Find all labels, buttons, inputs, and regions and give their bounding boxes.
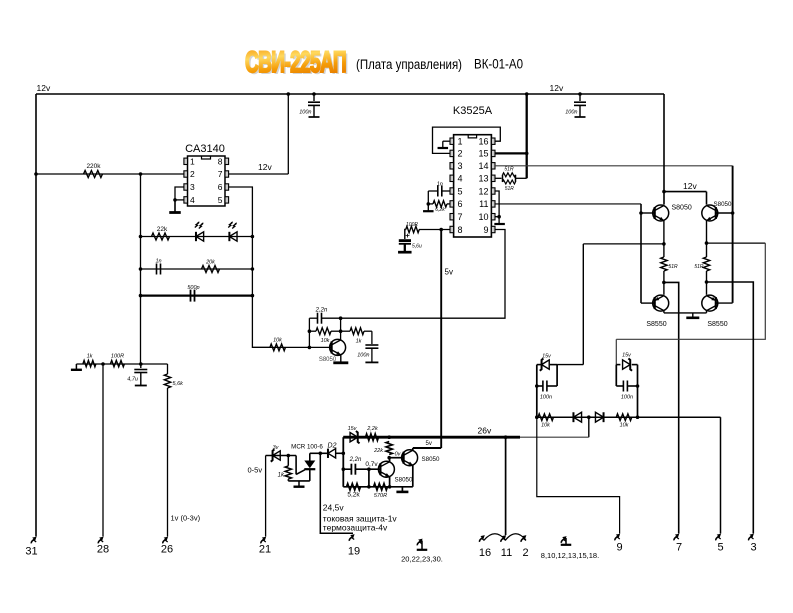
svg-text:+: + <box>405 231 410 240</box>
junction row B left <box>139 267 143 271</box>
junction collector node top <box>339 316 343 320</box>
wire MCR gate branch <box>295 456 297 475</box>
ground at Q1 emitter <box>340 355 342 362</box>
wire Q3 emitter down <box>706 221 708 258</box>
wire 12v to driver collectors <box>664 191 707 193</box>
junction 12v rail / 100n cap <box>312 92 316 96</box>
wire 0-5v zener row <box>266 455 297 457</box>
junction 22k top <box>387 435 391 439</box>
resistor 10k left snubber <box>538 414 554 421</box>
transistor Q4 S8550 left <box>653 295 669 311</box>
svg-text:14: 14 <box>478 161 488 171</box>
svg-text:0v: 0v <box>395 452 402 458</box>
capacitor 1n at pin5 <box>442 190 450 192</box>
junction left snubber bottom <box>535 415 539 419</box>
terminal 21 <box>261 539 264 543</box>
terminal 28 <box>98 539 101 543</box>
svg-text:26: 26 <box>161 544 173 556</box>
junction 5,2k / 570R <box>367 485 371 489</box>
ground at K3525A pin1 <box>438 147 449 149</box>
svg-text:8,10,12,13,15,18.: 8,10,12,13,15,18. <box>541 551 599 560</box>
svg-text:31: 31 <box>25 546 37 558</box>
wire 12v rail right drop <box>663 94 665 205</box>
svg-text:28: 28 <box>97 544 109 556</box>
svg-text:0,7v: 0,7v <box>365 461 378 468</box>
junction collector node mid <box>339 329 343 333</box>
wire feedback row A <box>141 236 253 238</box>
capacitor 4,7u to ground <box>140 364 142 368</box>
capacitor 5,6u electrolytic <box>405 230 406 240</box>
junction Q6 emitter row <box>388 485 392 489</box>
op-amp U1 CA3140 body <box>188 156 226 206</box>
junction pin8 / 5v column <box>439 228 443 232</box>
svg-text:570R: 570R <box>374 493 387 499</box>
svg-text:0-5v: 0-5v <box>248 466 263 475</box>
IC U2 K3525A body <box>454 135 492 237</box>
diode D2 <box>320 452 327 454</box>
junction 22k bottom 0v node <box>387 456 391 460</box>
wire 24,5v drop to terminal 19 <box>320 453 353 533</box>
transistor Q2 S8050 driver left <box>653 205 669 221</box>
wire right output tap <box>707 242 766 244</box>
wire base line from CA3140 output <box>252 346 331 348</box>
svg-text:500p: 500p <box>187 285 199 291</box>
resistor 220k <box>84 171 103 178</box>
capacitor 500p row C <box>190 290 192 302</box>
svg-text:19: 19 <box>348 546 360 558</box>
LED D-left in row A <box>196 232 204 241</box>
zener 3v <box>273 451 281 460</box>
svg-text:100n: 100n <box>540 395 552 401</box>
svg-text:100n: 100n <box>621 395 633 401</box>
svg-text:2,2n: 2,2n <box>315 308 328 314</box>
svg-text:СВИ-225АП: СВИ-225АП <box>245 46 346 79</box>
wire left output drop to snubber <box>582 244 584 365</box>
resistor 100R <box>111 360 125 366</box>
wire CA3140 pin4 to ground <box>175 199 184 201</box>
wire K3525A pin9 to comparator line <box>341 230 505 319</box>
svg-text:S8550: S8550 <box>646 321 666 328</box>
resistor 6,2k at pin6 <box>447 203 450 205</box>
svg-text:1k: 1k <box>356 339 362 345</box>
svg-text:24,5v: 24,5v <box>323 503 345 513</box>
wire S8550 emitters to ground <box>663 311 665 313</box>
resistor 10k right snubber <box>616 414 632 421</box>
wire terminal 21 drop <box>265 456 267 537</box>
wire CA3140 pin3 to ground <box>175 187 184 200</box>
wire snubber row to terminal 5 <box>720 417 722 533</box>
svg-text:1k: 1k <box>278 473 285 479</box>
junction row C right <box>251 294 255 298</box>
wire 51R left to S8550 collector <box>663 271 665 295</box>
svg-text:16: 16 <box>478 137 488 147</box>
junction base / feedback branch <box>308 346 312 350</box>
junction row A right <box>251 235 255 239</box>
wire base node drop <box>368 469 370 487</box>
wire CA3140 pin2 input line <box>36 173 184 175</box>
resistor 22k <box>152 233 170 240</box>
junction row B right <box>251 267 255 271</box>
svg-text:100n: 100n <box>565 110 577 116</box>
wire K3525A pin11 drive line <box>495 203 641 205</box>
terminal 5 <box>716 536 719 540</box>
ground at K3525A pin10 <box>498 217 500 224</box>
diode D-right row <box>595 412 603 422</box>
svg-text:100n: 100n <box>357 353 369 359</box>
junction 1k/100R node to terminal 28 <box>101 362 105 366</box>
junction 26v / terminal 11 drop <box>504 435 508 439</box>
capacitor 2,2n protection <box>343 468 351 470</box>
svg-text:2: 2 <box>190 169 195 179</box>
wire left output tap <box>583 243 664 245</box>
wire K3525A pin8 soft-start <box>419 229 450 231</box>
svg-text:5v: 5v <box>445 268 453 277</box>
svg-text:2,2n: 2,2n <box>349 457 362 463</box>
svg-text:1: 1 <box>190 157 195 167</box>
svg-text:12v: 12v <box>258 162 272 172</box>
wire K3525A pin14 drive line <box>495 165 733 167</box>
resistor 51R lower of pair <box>503 180 516 184</box>
svg-text:5: 5 <box>218 195 223 205</box>
zener 15v right snubber <box>616 364 620 366</box>
terminal 11 <box>501 538 504 542</box>
wire 51R pair to 12v riser <box>516 177 527 179</box>
svg-text:9: 9 <box>483 225 488 235</box>
wire right output drop <box>616 243 765 339</box>
svg-text:9: 9 <box>616 542 622 554</box>
ground at pin5/pin6 RC <box>427 204 429 211</box>
resistor 20k <box>202 266 220 273</box>
wire feedback row B <box>141 268 253 270</box>
svg-text:22k: 22k <box>157 226 168 233</box>
wire CA3140 pin7 to 12v <box>229 173 289 175</box>
svg-text:12v: 12v <box>683 181 697 191</box>
svg-text:S8050: S8050 <box>714 201 732 208</box>
wire 26v gray segment <box>520 436 589 438</box>
junction D2 line / 24,5v drop <box>319 452 323 456</box>
svg-text:3: 3 <box>458 161 463 171</box>
svg-text:2: 2 <box>458 149 463 159</box>
wire MCR cathode row <box>288 480 310 482</box>
terminal 2 <box>521 538 524 542</box>
svg-text:22k: 22k <box>373 448 383 454</box>
svg-text:6: 6 <box>218 182 223 192</box>
svg-text:26v: 26v <box>478 426 492 436</box>
wire feedback column left <box>140 174 142 364</box>
svg-text:100R: 100R <box>111 354 124 360</box>
junction diode pair / 26v tap <box>587 415 591 419</box>
wire K3525A pin12 to pin10 <box>495 191 499 217</box>
svg-text:12: 12 <box>478 186 488 196</box>
svg-text:1k: 1k <box>87 354 93 360</box>
svg-text:16: 16 <box>479 547 491 559</box>
junction row C left <box>139 294 143 298</box>
junction left snubber cap <box>535 384 539 388</box>
junction 2,2n / base node <box>367 467 371 471</box>
svg-text:4: 4 <box>190 195 195 205</box>
transistor Q7 S8050 protection upper <box>402 450 418 466</box>
wire loop pin2 to pin16 <box>433 127 501 153</box>
resistor 51R upper of pair <box>503 173 516 177</box>
svg-text:2,2k: 2,2k <box>366 426 378 432</box>
ground protection row <box>401 487 403 492</box>
resistor 10k base <box>270 344 286 351</box>
svg-text:51R: 51R <box>504 166 514 172</box>
wire 0v node to Q7 base <box>389 457 403 459</box>
wire terminal 11 drop <box>505 437 507 535</box>
wire 1k-100R row <box>76 363 167 365</box>
wire feedback branch vertical <box>308 318 310 347</box>
junction right snubber bottom <box>636 415 640 419</box>
capacitor 2.2n feedback <box>309 317 317 319</box>
svg-text:11: 11 <box>479 199 488 209</box>
wire K3525A pin15 to 12v riser <box>495 152 527 154</box>
resistor 5,6k <box>164 374 170 388</box>
svg-text:11: 11 <box>501 547 512 559</box>
junction right snubber cap <box>636 384 640 388</box>
terminal 31 <box>31 539 34 543</box>
resistor 51R left <box>661 257 667 271</box>
resistor 1k gate <box>287 456 289 466</box>
svg-text:3: 3 <box>190 182 195 192</box>
transistor Q3 S8050 driver right <box>702 205 718 221</box>
resistor 22k vertical <box>386 442 392 455</box>
svg-text:10k: 10k <box>321 338 330 344</box>
svg-text:10k: 10k <box>541 423 550 429</box>
svg-text:1n: 1n <box>437 182 443 188</box>
wire 12v top rail <box>36 93 664 95</box>
junction feedback column / RC row <box>139 362 143 366</box>
junction RT/CT ground node <box>427 202 431 206</box>
svg-text:1v (0-3v): 1v (0-3v) <box>171 514 201 523</box>
transistor Q5 S8550 right <box>702 295 718 311</box>
capacitor 100n right snubber <box>616 385 623 387</box>
svg-text:D2: D2 <box>328 443 337 450</box>
svg-text:8: 8 <box>218 157 223 167</box>
capacitor 100n at 12v rail left <box>313 94 315 101</box>
resistor 570R <box>374 483 388 490</box>
svg-text:(Плата управления): (Плата управления) <box>356 57 462 72</box>
svg-text:12v: 12v <box>37 83 51 93</box>
terminal 26 <box>163 539 166 543</box>
junction left output / emitter <box>662 242 666 246</box>
svg-text:15v: 15v <box>348 426 358 432</box>
junction pin10 node <box>497 215 501 219</box>
svg-text:15v: 15v <box>622 353 632 359</box>
svg-text:15: 15 <box>478 149 488 159</box>
wire terminal 28 drop <box>102 364 104 537</box>
wire Q2 emitter down <box>663 221 665 258</box>
right snubber side wires <box>615 365 617 386</box>
svg-text:5v: 5v <box>426 441 432 447</box>
wire base Q2 <box>641 212 655 214</box>
svg-text:S8050: S8050 <box>422 456 440 463</box>
wire Q6 emitter down <box>389 477 391 487</box>
junction pin3/pin4 ground node <box>173 198 177 202</box>
svg-text:4: 4 <box>458 174 463 184</box>
svg-text:20,22,23,30.: 20,22,23,30. <box>401 555 443 564</box>
left snubber side wires <box>536 365 538 418</box>
capacitor 1n row B <box>156 264 158 275</box>
svg-text:7: 7 <box>218 169 223 179</box>
diode D-left row <box>573 412 581 422</box>
capacitor 100n collector RC <box>371 331 373 344</box>
transistor Q6 S8050 protection lower <box>378 461 394 477</box>
svg-text:5,6u: 5,6u <box>412 244 422 250</box>
junction 12v rail / CA3140 pin7 riser <box>287 92 291 96</box>
junction 2,2n line / left column <box>342 467 346 471</box>
ground below CA3140 <box>174 200 176 212</box>
svg-text:2: 2 <box>522 547 528 559</box>
wire 12v riser to pin13 network <box>526 94 528 178</box>
svg-text:5: 5 <box>458 186 463 196</box>
svg-text:3v: 3v <box>273 445 280 451</box>
svg-text:8: 8 <box>458 225 463 235</box>
51R pair end bars <box>502 175 504 182</box>
wire 51R right to S8550 collector <box>706 271 708 295</box>
junction right collector node <box>705 280 709 284</box>
wire Q7 emitter down <box>412 465 414 487</box>
svg-text:10: 10 <box>478 212 488 222</box>
ground MCR cathode <box>298 481 300 486</box>
svg-text:ВК-01-А0: ВК-01-А0 <box>474 57 523 72</box>
wire pin14 riser to right bases <box>732 166 734 303</box>
wire 5v column pin8 down to protection <box>440 230 442 449</box>
junction driver 12v node <box>662 190 666 194</box>
svg-text:220k: 220k <box>86 163 101 170</box>
junction 12v rail / K3525A pin15 riser <box>525 92 529 96</box>
wire base Q3 <box>716 212 733 214</box>
wire pin5 RC to pin6 RC <box>427 191 429 204</box>
svg-text:S8050: S8050 <box>672 205 692 212</box>
svg-text:6: 6 <box>458 199 463 209</box>
LED D-right in row A <box>229 232 237 241</box>
svg-text:100n: 100n <box>299 110 311 116</box>
svg-text:12v: 12v <box>550 83 564 93</box>
svg-text:51R: 51R <box>505 186 515 192</box>
arc terminal 11 to 2 <box>506 534 526 540</box>
svg-text:5,2k: 5,2k <box>347 492 360 499</box>
terminal 9 <box>615 536 618 540</box>
zener 15v protection <box>343 436 349 438</box>
junction row A left <box>139 235 143 239</box>
svg-text:K3525A: K3525A <box>453 105 493 117</box>
zener 15v left snubber <box>537 364 541 366</box>
junction left base node <box>639 211 643 215</box>
wire right snubber feed <box>615 339 617 364</box>
wire left node to terminal 7 <box>664 282 679 533</box>
wire protection bottom row <box>343 486 413 488</box>
CA3140 pin stubs <box>184 158 188 164</box>
svg-text:10k: 10k <box>620 423 629 429</box>
wire protection left column <box>342 437 344 487</box>
junction D2 line / left column <box>342 452 346 456</box>
wire Q6 collector up <box>389 458 391 462</box>
svg-text:3: 3 <box>750 542 756 554</box>
svg-text:S8050: S8050 <box>395 477 413 484</box>
svg-text:S8550: S8550 <box>707 321 727 328</box>
svg-text:13: 13 <box>478 174 488 184</box>
terminal 7 <box>674 536 677 540</box>
terminal 3 <box>749 536 752 540</box>
wire base Q4 <box>641 302 655 304</box>
svg-text:51R: 51R <box>669 264 679 270</box>
svg-text:1n: 1n <box>155 259 161 265</box>
terminal 8,10,12,13,15,18 <box>561 539 564 543</box>
junction zener / 1k gate <box>287 454 291 458</box>
junction left rail / pin2 line <box>34 172 38 176</box>
wire collector vertical <box>340 318 342 340</box>
wire left snubber top link <box>557 364 583 366</box>
svg-text:MCR 100-6: MCR 100-6 <box>291 444 323 451</box>
svg-text:5: 5 <box>717 542 723 554</box>
svg-text:6,2k: 6,2k <box>435 207 445 213</box>
svg-text:5,6k: 5,6k <box>173 381 184 387</box>
junction pin15 / riser <box>525 152 529 156</box>
svg-text:51R: 51R <box>694 264 704 270</box>
wire CA3140 pin6 output <box>229 187 270 347</box>
junction right base node <box>731 211 735 215</box>
svg-text:21: 21 <box>259 544 271 556</box>
wire pin11 riser to left bases <box>640 204 642 303</box>
capacitor 100n at 12v rail right <box>578 92 582 96</box>
svg-text:CA3140: CA3140 <box>185 143 225 155</box>
junction pin2 line / feedback column <box>139 172 143 176</box>
junction feedback left mid <box>308 329 312 333</box>
transistor Q1 S8050 error amp <box>330 339 346 355</box>
resistor 1k <box>83 360 96 366</box>
wire right node to terminal 3 <box>707 282 754 534</box>
resistor 5,2k <box>347 483 361 490</box>
svg-text:10k: 10k <box>273 338 282 344</box>
K3525A pin stubs <box>450 138 454 144</box>
svg-text:термозащита-4v: термозащита-4v <box>323 523 388 533</box>
wire base Q5 <box>716 302 733 304</box>
terminal 20,22,23,30 <box>417 541 420 545</box>
resistor 100R at pin8 <box>406 226 420 232</box>
junction left collector node <box>662 281 666 285</box>
terminal 19 <box>349 537 352 541</box>
resistor 2,2k <box>366 434 379 441</box>
svg-text:7: 7 <box>458 212 463 222</box>
capacitor 100n left snubber <box>537 385 543 387</box>
svg-text:1: 1 <box>458 137 463 147</box>
svg-text:15v: 15v <box>542 354 552 360</box>
arc terminal 16 to 11 <box>484 534 505 540</box>
resistor 10k feedback <box>309 330 316 332</box>
wire to 5,6k <box>167 364 169 374</box>
svg-text:4,7u: 4,7u <box>127 377 138 383</box>
resistor 51R right <box>703 257 709 271</box>
terminal 16 <box>479 538 482 542</box>
ground between S8550s <box>692 313 694 317</box>
svg-text:100R: 100R <box>406 222 418 228</box>
wire feedback row C <box>141 295 253 297</box>
wire K3525A pin13 to 51R pair <box>495 177 502 179</box>
wire left vertical to terminal 31 <box>35 94 37 537</box>
ground left of 1k <box>75 364 77 369</box>
wire 26v tap drop <box>588 417 590 437</box>
wire terminal 9 branch <box>537 417 620 533</box>
wire Q7 collector to 5v <box>412 448 414 450</box>
wire 5,6k to terminal 26 <box>167 388 169 537</box>
wire 26v main line <box>343 436 520 439</box>
wire 2,2k to 26v line <box>379 436 390 438</box>
svg-text:7: 7 <box>676 542 682 554</box>
wire snubber output row <box>537 416 721 418</box>
svg-text:20k: 20k <box>205 260 215 266</box>
wire K3525A pin1 to ground <box>443 140 450 142</box>
